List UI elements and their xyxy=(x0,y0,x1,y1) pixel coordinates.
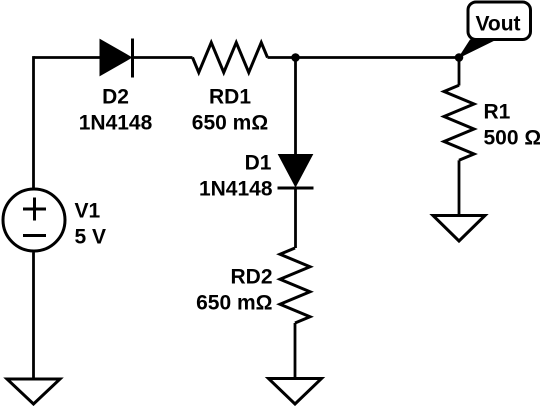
svg-text:1N4148: 1N4148 xyxy=(199,178,273,201)
wire R1 to ground xyxy=(458,160,461,215)
svg-text:650 mΩ: 650 mΩ xyxy=(192,112,268,135)
wire RD1 to node A and node B xyxy=(268,56,460,59)
ground under V1 xyxy=(7,379,60,404)
svg-text:1N4148: 1N4148 xyxy=(79,112,153,135)
svg-text:D2: D2 xyxy=(102,86,129,109)
svg-text:650 mΩ: 650 mΩ xyxy=(196,292,272,315)
ground under RD2 xyxy=(269,379,322,405)
diode D1 xyxy=(278,155,314,189)
Vout flag pointer xyxy=(459,40,495,58)
wire V1 bottom to ground xyxy=(32,253,35,380)
svg-text:R1: R1 xyxy=(484,101,511,124)
resistor R1 xyxy=(444,85,474,160)
svg-text:5 V: 5 V xyxy=(75,226,107,249)
wire top-left horizontal from corner to D2 anode xyxy=(34,56,101,59)
wire left vertical from corner to V1 top xyxy=(32,56,35,188)
wire node B down to R1 xyxy=(458,58,461,86)
wire D2 cathode to RD1 xyxy=(133,56,193,59)
wire RD2 to ground xyxy=(294,323,297,379)
svg-text:Vout: Vout xyxy=(475,13,520,36)
resistor RD2 xyxy=(280,248,310,323)
voltage source V1 xyxy=(3,189,65,251)
resistor RD1 xyxy=(193,43,268,73)
svg-text:RD1: RD1 xyxy=(209,86,251,109)
svg-text:RD2: RD2 xyxy=(230,266,272,289)
node B junction dot xyxy=(455,53,464,62)
Vout flag box xyxy=(468,2,531,40)
wire node A down to D1 xyxy=(294,58,297,156)
ground under R1 xyxy=(433,216,485,242)
wire D1 cathode to RD2 xyxy=(294,188,297,248)
diode D2 xyxy=(100,39,133,78)
svg-text:D1: D1 xyxy=(245,152,272,175)
node A junction dot xyxy=(291,53,300,62)
svg-text:500 Ω: 500 Ω xyxy=(484,127,540,150)
svg-text:V1: V1 xyxy=(75,200,101,223)
